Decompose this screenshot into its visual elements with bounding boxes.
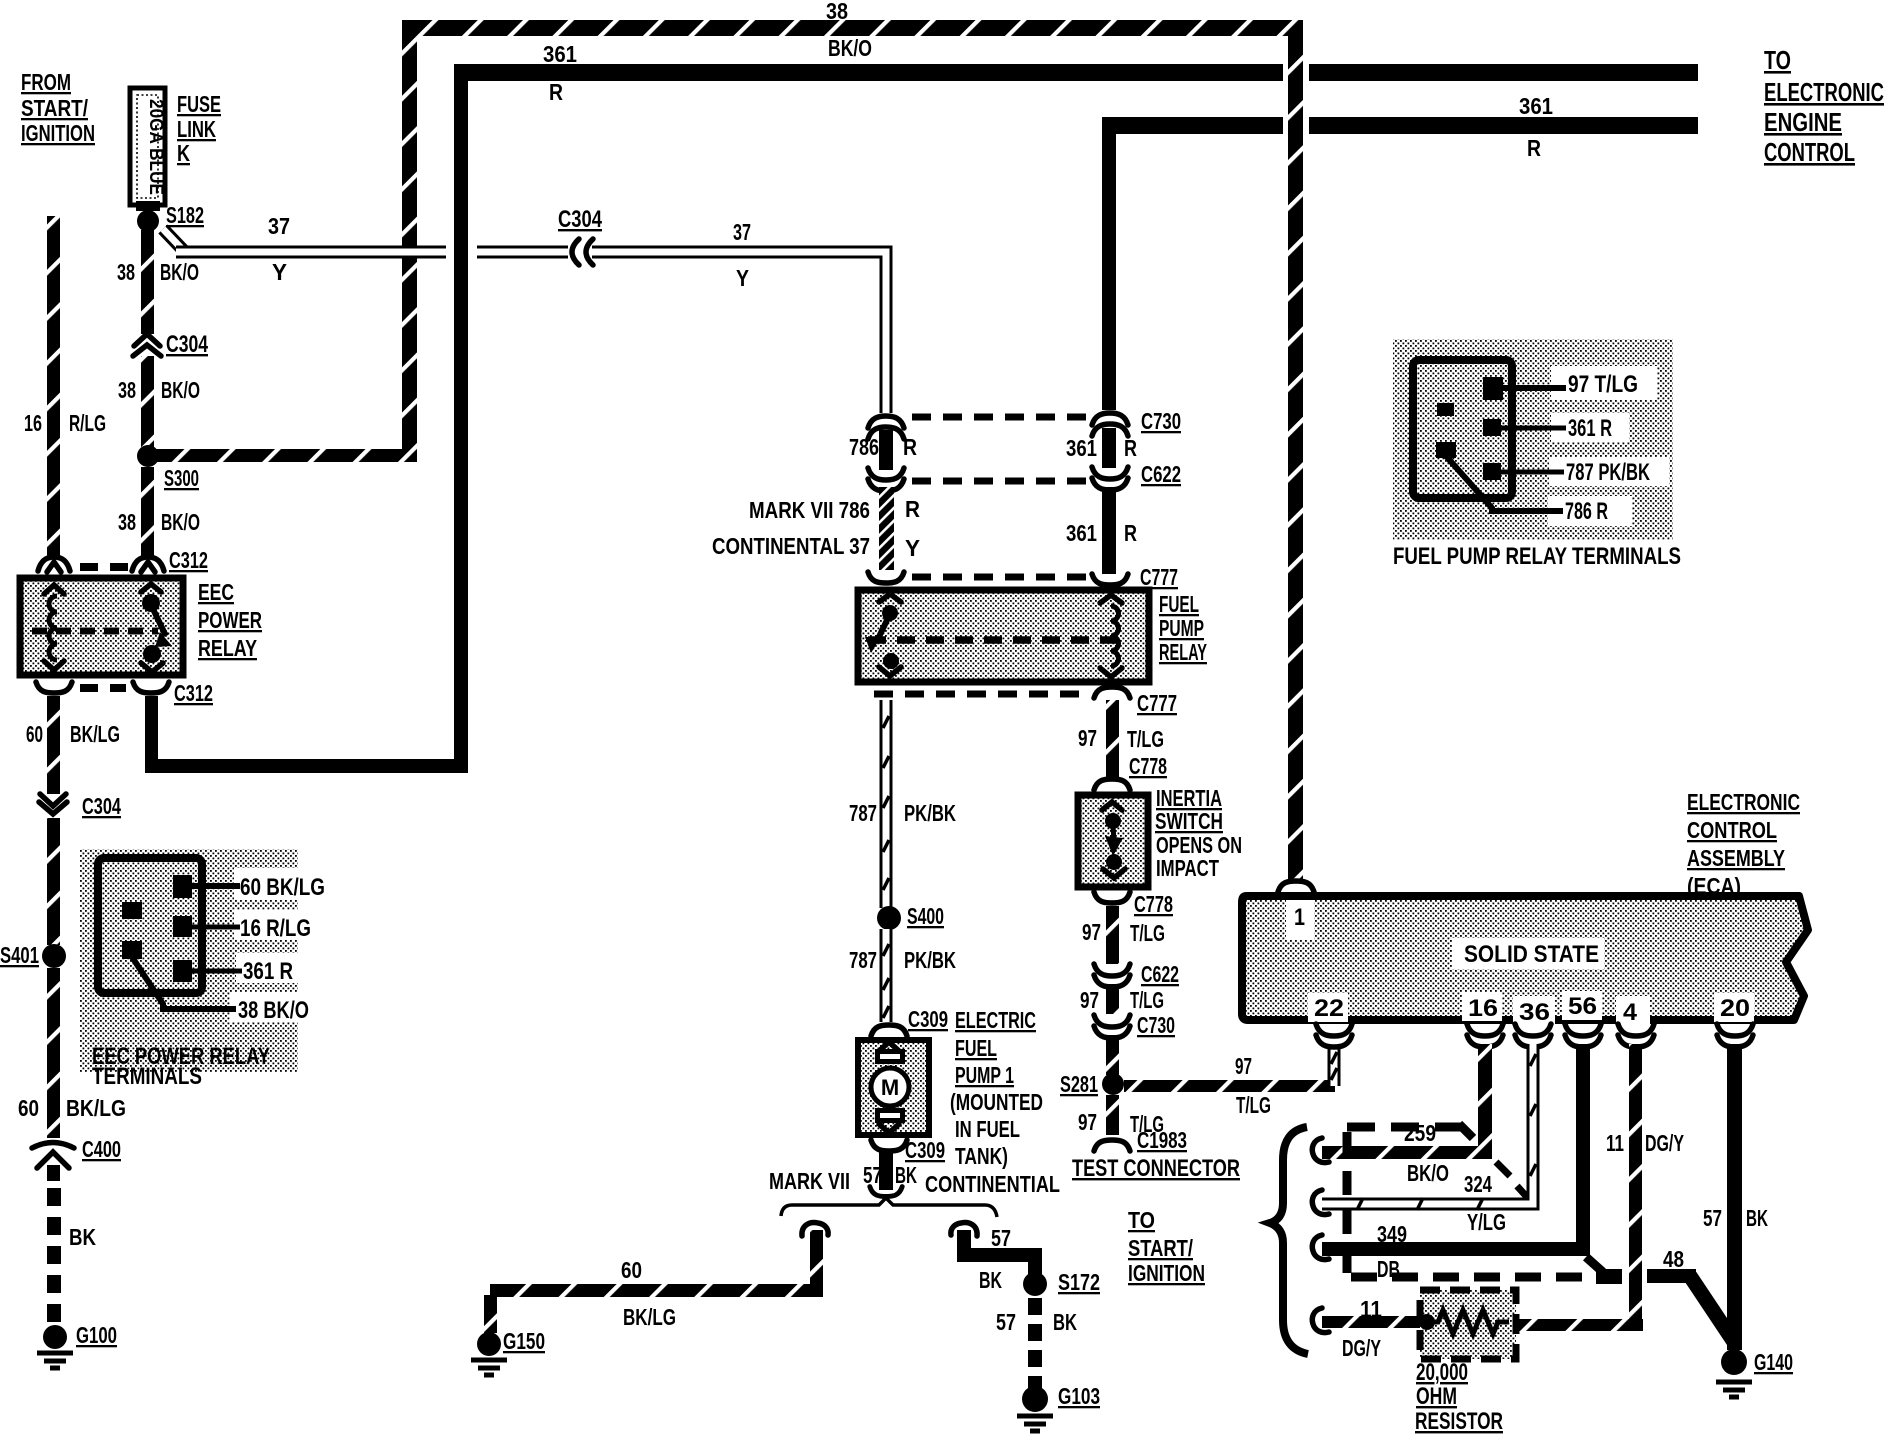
svg-text:361: 361 <box>1066 435 1097 461</box>
label G140 <box>1754 1349 1793 1375</box>
svg-text:SWITCH: SWITCH <box>1155 808 1223 834</box>
label S281 <box>1060 1071 1098 1097</box>
svg-text:787: 787 <box>849 947 877 973</box>
label 57 BK <box>996 1309 1077 1335</box>
wire 57 BK (pin 20 to G140) <box>1727 1044 1742 1350</box>
svg-text:57: 57 <box>996 1309 1016 1335</box>
label C777 <box>1137 690 1177 716</box>
svg-text:BK/LG: BK/LG <box>623 1304 676 1330</box>
svg-text:R: R <box>1527 135 1541 161</box>
svg-text:60: 60 <box>26 721 43 747</box>
wire MARK VII 786 / CONTINENTAL 37 rope segment <box>879 487 894 570</box>
connector C312 top <box>38 557 164 572</box>
fuel pump relay terminals panel <box>1393 339 1673 540</box>
svg-text:OHM: OHM <box>1416 1383 1457 1410</box>
svg-text:ASSEMBLY: ASSEMBLY <box>1687 845 1785 871</box>
svg-text:37: 37 <box>268 213 290 239</box>
svg-text:1: 1 <box>1294 904 1305 931</box>
label 38 BK/O terminal <box>238 997 309 1024</box>
label C400 <box>82 1136 121 1162</box>
label 60 BK/LG <box>621 1257 676 1330</box>
label S400 <box>907 903 944 929</box>
label C309 <box>905 1137 945 1163</box>
svg-text:C778: C778 <box>1134 891 1173 917</box>
wire 97 T/LG to ECA pin 22 <box>1124 1044 1337 1092</box>
svg-text:Y: Y <box>905 535 920 561</box>
svg-text:PK/BK: PK/BK <box>904 947 956 973</box>
label BK/O top <box>828 35 872 61</box>
svg-text:BK/O: BK/O <box>161 377 200 403</box>
label 97 T/LG <box>1082 919 1165 946</box>
splice S400 <box>877 906 901 930</box>
label 57 BK <box>1703 1205 1768 1231</box>
label pin 36 <box>1519 999 1550 1026</box>
label C778 <box>1129 753 1167 779</box>
svg-text:T/LG: T/LG <box>1130 987 1164 1013</box>
label 48 <box>1663 1246 1684 1272</box>
connector row C730-left <box>868 416 1090 439</box>
label C1983 <box>1137 1127 1187 1153</box>
svg-text:Y/LG: Y/LG <box>1467 1209 1506 1235</box>
svg-text:DG/Y: DG/Y <box>1342 1335 1381 1361</box>
svg-text:48: 48 <box>1663 1246 1684 1272</box>
svg-text:FUSE: FUSE <box>177 91 221 117</box>
wire 60 BK/LG (C312 to C304) <box>47 696 60 794</box>
wire 37 Y thin (S182 to C304 to down) <box>163 229 886 413</box>
label C622 <box>1141 461 1181 487</box>
svg-text:FROM: FROM <box>21 69 71 95</box>
label 787 PK/BK <box>849 800 956 826</box>
svg-text:C730: C730 <box>1137 1012 1175 1038</box>
ground G150 <box>471 1332 507 1375</box>
split bracket wire <box>781 1198 997 1217</box>
connector ECA pin 1 <box>1278 881 1314 892</box>
connector split flare <box>870 1187 902 1197</box>
label C304 <box>166 331 208 358</box>
svg-text:C777: C777 <box>1140 564 1178 590</box>
svg-text:C312: C312 <box>174 680 213 706</box>
svg-text:20GA BLUE: 20GA BLUE <box>145 99 166 195</box>
svg-text:CONTROL: CONTROL <box>1764 137 1855 167</box>
hook right branch <box>951 1223 977 1236</box>
svg-text:36: 36 <box>1519 999 1550 1026</box>
hook left branch <box>802 1223 828 1236</box>
hook wire 11 <box>1312 1308 1329 1333</box>
svg-text:C622: C622 <box>1141 461 1181 487</box>
label 20,000 OHM RESISTOR <box>1415 1359 1503 1435</box>
svg-text:FUEL: FUEL <box>955 1035 997 1061</box>
svg-text:S182: S182 <box>166 202 204 228</box>
svg-text:324: 324 <box>1464 1171 1492 1197</box>
svg-text:G100: G100 <box>76 1322 117 1348</box>
inertia switch S1 <box>1078 795 1148 887</box>
label ELECTRONIC CONTROL ASSEMBLY (ECA) <box>1687 789 1800 899</box>
svg-text:20,000: 20,000 <box>1416 1359 1468 1386</box>
svg-text:57: 57 <box>863 1162 882 1188</box>
svg-text:97: 97 <box>1235 1053 1252 1079</box>
svg-text:38: 38 <box>117 259 135 285</box>
label 16 R/LG <box>24 410 106 436</box>
svg-text:K: K <box>177 140 190 166</box>
svg-text:RELAY: RELAY <box>198 635 257 661</box>
connector C777 top <box>1092 574 1128 585</box>
svg-text:TEST CONNECTOR: TEST CONNECTOR <box>1072 1155 1240 1182</box>
wire 38 BK/O (S182 to C304) <box>141 230 154 334</box>
svg-text:361: 361 <box>1519 93 1553 119</box>
electric fuel pump M1 <box>858 1040 929 1135</box>
connector pin 36 <box>1515 1024 1551 1047</box>
svg-text:C312: C312 <box>169 547 208 573</box>
label C312 <box>174 680 213 706</box>
label MARK VII 786 R <box>749 496 920 523</box>
wire 259 BK/O (pin 16) <box>1322 1044 1492 1159</box>
svg-text:97: 97 <box>1080 987 1099 1013</box>
connector C778 bottom <box>1094 892 1130 903</box>
label 60 BK/LG terminal <box>240 874 325 901</box>
label 60 BK/LG <box>18 1095 126 1121</box>
svg-text:DG/Y: DG/Y <box>1645 1130 1684 1156</box>
connector C312 bottom <box>36 682 169 693</box>
label 38 top <box>826 0 848 24</box>
label CONTINENTAL 37 Y <box>712 533 920 561</box>
wire 38 BK/O (S300 to C312) <box>141 467 154 558</box>
wire 48 to G140 <box>1647 1269 1734 1342</box>
svg-text:97: 97 <box>1078 725 1097 751</box>
svg-text:BK/LG: BK/LG <box>66 1095 126 1121</box>
label ELECTRIC FUEL PUMP 1 (MOUNTED IN FUEL TANK) <box>950 1007 1043 1169</box>
resistor R1 20000 ohm <box>1419 1290 1516 1359</box>
label G150 <box>503 1328 545 1354</box>
note TO START/IGNITION <box>1128 1207 1205 1286</box>
label 1 <box>1294 904 1305 931</box>
splice S281 <box>1102 1073 1124 1095</box>
connector C730 <box>1092 413 1128 436</box>
svg-text:C778: C778 <box>1129 753 1167 779</box>
wire 57 BK stub <box>879 1152 893 1190</box>
connector C304 <box>133 334 161 356</box>
svg-text:16: 16 <box>1468 995 1498 1022</box>
svg-text:TANK): TANK) <box>955 1143 1008 1169</box>
label 38 BK/O <box>118 377 200 403</box>
label C730 <box>1137 1012 1175 1038</box>
connector pin 16 <box>1467 1024 1503 1047</box>
svg-text:60: 60 <box>621 1257 642 1283</box>
svg-text:C622: C622 <box>1141 961 1179 987</box>
label 38 BK/O <box>118 509 200 535</box>
svg-text:START/: START/ <box>1128 1235 1193 1261</box>
connector C400 <box>32 1143 74 1169</box>
svg-text:T/LG: T/LG <box>1127 726 1164 752</box>
dashed alt wire bottom <box>1351 1257 1622 1284</box>
svg-text:S401: S401 <box>0 942 39 968</box>
svg-text:T/LG: T/LG <box>1130 920 1165 946</box>
wire 38 BK/O top loop (hatched) <box>148 20 1303 881</box>
svg-text:IN FUEL: IN FUEL <box>955 1116 1020 1142</box>
svg-text:BK/O: BK/O <box>160 259 199 285</box>
hook wire 324 <box>1312 1190 1329 1215</box>
svg-text:349: 349 <box>1377 1221 1407 1247</box>
label C777 <box>1140 564 1178 590</box>
wire 38 BK/O (C304 to S300) <box>141 356 154 447</box>
wire 324 Y/LG (pin 36) <box>1322 1044 1536 1210</box>
svg-text:M: M <box>881 1075 899 1100</box>
label 787 PK/BK <box>849 947 956 973</box>
label 37 Y (left) <box>268 213 290 285</box>
svg-text:LINK: LINK <box>177 116 216 142</box>
label FUEL PUMP RELAY <box>1159 591 1207 665</box>
wire 11 DG/Y to resistor <box>1322 1316 1422 1328</box>
svg-text:20: 20 <box>1720 995 1750 1022</box>
connector C304 double-arc <box>572 239 593 265</box>
svg-text:S400: S400 <box>907 903 944 929</box>
ground G103 <box>1017 1386 1053 1431</box>
svg-text:787 PK/BK: 787 PK/BK <box>1566 459 1650 486</box>
label EEC POWER RELAY <box>198 579 262 661</box>
label 349 DB <box>1377 1221 1407 1282</box>
label 97 T/LG <box>1078 1109 1164 1137</box>
label C304 <box>558 206 603 233</box>
hook wire 259 <box>1312 1138 1329 1163</box>
svg-text:361: 361 <box>543 41 577 67</box>
label 11 DG/Y pin4 <box>1606 1130 1684 1156</box>
svg-text:BK: BK <box>69 1224 96 1250</box>
svg-text:T/LG: T/LG <box>1236 1092 1271 1118</box>
splice S401 <box>42 944 66 968</box>
label 361 R <box>1066 520 1137 546</box>
svg-text:C309: C309 <box>905 1137 945 1163</box>
svg-text:97 T/LG: 97 T/LG <box>1568 371 1638 398</box>
svg-text:22: 22 <box>1314 995 1344 1022</box>
svg-text:37: 37 <box>733 219 751 245</box>
connector row C622-left <box>868 468 1090 491</box>
connector row C777-left <box>868 572 1090 583</box>
svg-text:ELECTRIC: ELECTRIC <box>955 1007 1036 1033</box>
label 57 BK <box>979 1225 1011 1293</box>
svg-text:S281: S281 <box>1060 1071 1098 1097</box>
label pin 4 <box>1623 999 1638 1026</box>
svg-text:DB: DB <box>1377 1256 1400 1282</box>
label S300 <box>164 465 199 491</box>
splice S300 <box>137 445 159 467</box>
svg-text:361: 361 <box>1066 520 1097 546</box>
label G103 <box>1058 1383 1100 1409</box>
label pin 16 <box>1468 995 1498 1022</box>
svg-text:TERMINALS: TERMINALS <box>92 1063 202 1090</box>
svg-text:PUMP 1: PUMP 1 <box>955 1062 1014 1088</box>
svg-text:Y: Y <box>272 259 287 285</box>
label 97 T/LG <box>1080 987 1164 1013</box>
svg-text:97: 97 <box>1078 1109 1097 1135</box>
svg-text:CONTROL: CONTROL <box>1687 817 1777 843</box>
wire 349 DB (pin 56) <box>1322 1044 1590 1256</box>
label CONTINENTIAL <box>925 1171 1060 1197</box>
label 361 R terminal <box>243 958 293 985</box>
caption FUEL PUMP RELAY TERMINALS <box>1393 543 1681 570</box>
svg-text:R: R <box>549 79 563 105</box>
svg-text:11: 11 <box>1606 1130 1624 1156</box>
caption EEC POWER RELAY TERMINALS <box>92 1043 270 1090</box>
svg-text:R/LG: R/LG <box>69 410 106 436</box>
label 324 Y/LG <box>1464 1171 1506 1235</box>
svg-text:38: 38 <box>118 509 136 535</box>
label 60 BK/LG <box>26 721 120 747</box>
wire 361 R segment <box>1102 428 1116 468</box>
connector pin 56 <box>1565 1024 1601 1047</box>
label pin 22 <box>1314 995 1344 1022</box>
note TO ELECTRONIC ENGINE CONTROL <box>1764 45 1884 167</box>
dashed alt wire top <box>1347 1124 1473 1138</box>
svg-text:C304: C304 <box>558 206 603 233</box>
hook wire 349 <box>1312 1235 1329 1260</box>
EEC power relay U1 <box>20 578 183 675</box>
wire 787 PK/BK (S400 to C309) <box>883 929 889 1022</box>
connector pin 4 <box>1618 1024 1654 1047</box>
svg-text:SOLID STATE: SOLID STATE <box>1464 941 1599 968</box>
svg-text:38 BK/O: 38 BK/O <box>238 997 309 1024</box>
label 361 R upper <box>543 41 577 105</box>
connector C304 lower <box>39 794 67 814</box>
connector C778 top <box>1094 779 1130 790</box>
label 97 T/LG <box>1078 725 1164 752</box>
label BK <box>69 1224 96 1250</box>
wire 57 BK dashed to G103 <box>1028 1298 1042 1388</box>
label 361 R terminal <box>1568 415 1612 442</box>
note FROM START/IGNITION <box>21 69 95 146</box>
svg-text:4: 4 <box>1623 999 1638 1026</box>
svg-text:START/: START/ <box>21 95 89 121</box>
svg-text:R: R <box>1124 435 1137 461</box>
label S172 <box>1058 1269 1100 1295</box>
svg-text:EEC: EEC <box>198 579 234 605</box>
fuse link K (20GA BLUE) <box>130 88 166 211</box>
svg-text:BK: BK <box>1053 1309 1077 1335</box>
label S401 <box>0 942 39 968</box>
label S182 <box>166 202 204 228</box>
connector C622 lower <box>1094 964 1130 987</box>
svg-text:ELECTRONIC: ELECTRONIC <box>1687 789 1800 815</box>
wire BK dashed to G100 <box>47 1165 60 1325</box>
svg-text:787: 787 <box>849 800 877 826</box>
wire 57 BK (to S172) <box>957 1230 1042 1274</box>
label MARK VII <box>769 1168 850 1194</box>
svg-text:G103: G103 <box>1058 1383 1100 1409</box>
svg-text:FUEL: FUEL <box>1159 591 1199 617</box>
wire 97 T/LG (S281 to C1983) <box>1106 1095 1119 1135</box>
svg-text:361 R: 361 R <box>1568 415 1612 442</box>
svg-text:ELECTRONIC: ELECTRONIC <box>1764 77 1884 107</box>
svg-text:BK: BK <box>895 1162 917 1188</box>
wire 97 T/LG (C730 to S281) <box>1106 1035 1119 1075</box>
label C312 <box>169 547 208 573</box>
label C622 <box>1141 961 1179 987</box>
label 97 T/LG horizontal <box>1235 1053 1271 1118</box>
fuel pump relay K2 <box>858 590 1149 682</box>
label FUSE LINK K <box>177 91 221 166</box>
brace harness <box>1270 1127 1308 1354</box>
svg-text:BK/O: BK/O <box>1407 1160 1449 1186</box>
wire 97 T/LG (C777 to C778) <box>1106 700 1119 778</box>
svg-text:BK: BK <box>1746 1205 1768 1231</box>
svg-text:C777: C777 <box>1137 690 1177 716</box>
connector C1983 <box>1094 1140 1130 1151</box>
label 16 R/LG terminal <box>240 915 311 942</box>
ground G140 <box>1716 1349 1752 1397</box>
svg-text:38: 38 <box>118 377 136 403</box>
label C778 <box>1134 891 1173 917</box>
svg-text:G150: G150 <box>503 1328 545 1354</box>
label 787 PK/BK terminal <box>1566 459 1650 486</box>
svg-text:ENGINE: ENGINE <box>1764 107 1842 137</box>
wire 97 T/LG (C778 to C622) <box>1106 906 1119 964</box>
label 259 BK/O <box>1404 1120 1449 1186</box>
svg-text:BK/LG: BK/LG <box>70 721 120 747</box>
label 786 R terminal <box>1565 498 1608 525</box>
svg-text:POWER: POWER <box>198 607 262 633</box>
svg-text:PUMP: PUMP <box>1159 615 1204 641</box>
ground G100 <box>37 1325 73 1368</box>
connector C730 lower <box>1094 1015 1130 1038</box>
connector C309 top <box>871 1025 907 1036</box>
label 38 BK/O <box>117 259 199 285</box>
wire 786 R segment <box>879 430 893 470</box>
svg-text:C1983: C1983 <box>1137 1127 1187 1153</box>
svg-text:R: R <box>903 434 917 460</box>
svg-text:(MOUNTED: (MOUNTED <box>950 1089 1043 1115</box>
svg-text:FUEL PUMP RELAY TERMINALS: FUEL PUMP RELAY TERMINALS <box>1393 543 1681 570</box>
label 361 R right <box>1519 93 1553 161</box>
label C730 <box>1141 408 1181 434</box>
svg-text:38: 38 <box>826 0 848 24</box>
ECA solid state module <box>1242 896 1808 1025</box>
connector C309 bottom <box>871 1140 907 1151</box>
svg-text:361 R: 361 R <box>243 958 293 985</box>
svg-text:BK/O: BK/O <box>161 509 200 535</box>
dashed alt wire vertical <box>1343 1132 1352 1277</box>
svg-text:60: 60 <box>18 1095 39 1121</box>
svg-text:C730: C730 <box>1141 408 1181 434</box>
svg-text:60 BK/LG: 60 BK/LG <box>240 874 325 901</box>
wire 60 BK/LG (C304 to S401) <box>47 818 60 945</box>
label 97 T/LG terminal <box>1568 371 1638 398</box>
svg-text:R: R <box>905 496 920 522</box>
svg-text:MARK VII 786: MARK VII 786 <box>749 497 870 523</box>
svg-text:TO: TO <box>1764 45 1791 75</box>
svg-text:RELAY: RELAY <box>1159 639 1207 665</box>
svg-text:97: 97 <box>1082 919 1101 945</box>
label C304 <box>82 793 121 819</box>
svg-text:C309: C309 <box>908 1006 948 1032</box>
svg-text:G140: G140 <box>1754 1349 1793 1375</box>
svg-text:S172: S172 <box>1058 1269 1100 1295</box>
svg-text:IGNITION: IGNITION <box>21 120 95 146</box>
svg-text:11: 11 <box>1360 1296 1382 1322</box>
label 786 R <box>849 434 917 460</box>
label INERTIA SWITCH OPENS ON IMPACT <box>1155 785 1242 881</box>
svg-text:IGNITION: IGNITION <box>1128 1260 1205 1286</box>
wire 16 R/LG <box>47 216 60 558</box>
label TEST CONNECTOR <box>1072 1155 1240 1182</box>
svg-text:CONTINENTAL 37: CONTINENTAL 37 <box>712 533 870 559</box>
label C309 <box>908 1006 948 1032</box>
svg-text:786: 786 <box>849 434 879 460</box>
svg-text:16: 16 <box>24 410 42 436</box>
svg-text:S300: S300 <box>164 465 199 491</box>
splice S182 <box>137 210 159 232</box>
wire 361 R lower run <box>1102 117 1698 410</box>
wire 11 DG/Y (resistor to pin 4) <box>1516 1044 1643 1331</box>
svg-text:Y: Y <box>736 265 749 291</box>
connector C622 <box>1092 467 1128 490</box>
